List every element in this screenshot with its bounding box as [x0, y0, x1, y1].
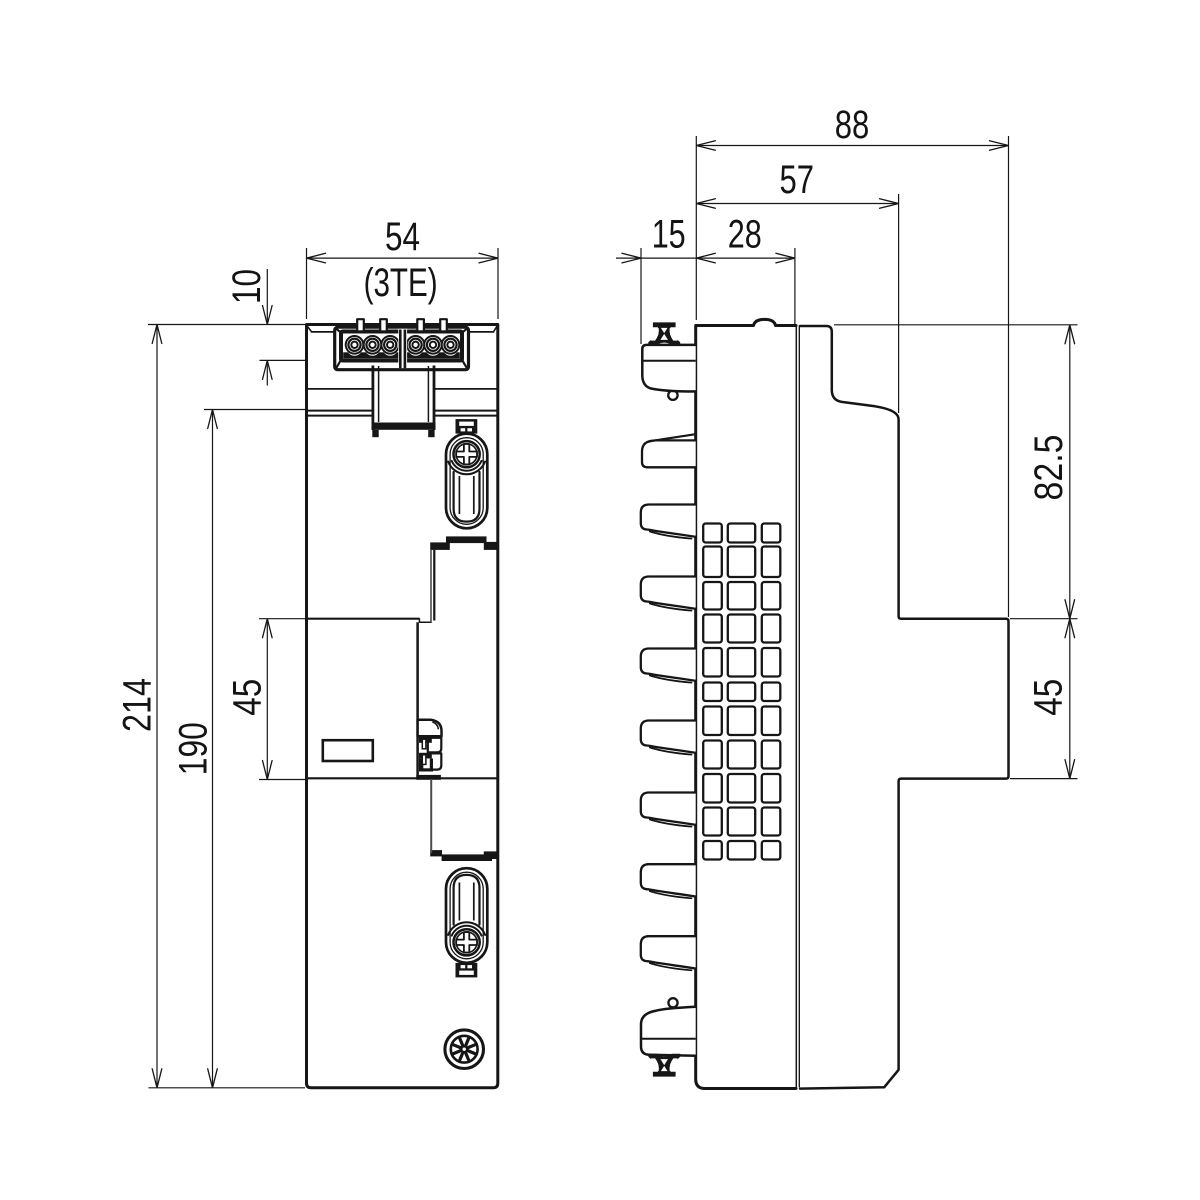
extension line x=794.9 (28 right)	[794, 248, 796, 325]
module cutout inner line	[433, 550, 435, 621]
module cutout left step	[430, 542, 450, 550]
bottom oval screw assembly (mirrored)	[446, 868, 487, 977]
svg-text:28: 28	[728, 213, 762, 257]
front top face right slant	[494, 326, 498, 332]
dimension line 54	[307, 257, 499, 259]
screw shank lines	[458, 476, 460, 514]
vent grid row 1	[703, 524, 722, 543]
module top edge jog	[419, 619, 431, 623]
module release latch edge line	[416, 622, 419, 778]
extension line x=696.3 (88/57/28 left)	[695, 136, 697, 320]
arrowhead 45R top	[1065, 619, 1075, 638]
side view divider line thick	[799, 326, 802, 1088]
wire clamp fin 4 (copy)	[641, 649, 696, 683]
T-plug stem right side	[433, 366, 436, 431]
dimension line 88	[696, 145, 1008, 147]
T-plug stem bottom bar	[372, 423, 436, 430]
T-plug stem left tick	[372, 430, 378, 437]
extension line y=409.5 (190 top)	[204, 409, 306, 411]
latch hook 2 slot	[422, 755, 426, 765]
terminal block center divider	[398, 329, 407, 368]
module cutout top bar	[446, 536, 487, 543]
terminal screw side spool	[648, 322, 680, 345]
extension line y=778.6 right	[1010, 778, 1078, 780]
module cutout left line	[430, 550, 432, 622]
arrowhead 54 right	[479, 253, 498, 263]
module cutout bottom-left bar	[430, 850, 442, 856]
body horizontal line y=388.9	[308, 388, 372, 390]
extension line y=324.5 (top of body)	[148, 324, 305, 326]
arrowhead 45R bottom	[1065, 760, 1075, 779]
arrowhead 15 left outside	[622, 253, 641, 263]
vent grid row 4	[703, 615, 722, 643]
bottom clip foot	[641, 1007, 696, 1056]
svg-text:45: 45	[1027, 679, 1071, 716]
terminal block corner bevels	[336, 329, 341, 333]
module cutout right step	[484, 542, 498, 550]
dimension line 82.5 / 45 right	[1069, 325, 1071, 779]
module cutout bottom right step	[484, 851, 498, 859]
latch hook 2 flap	[428, 753, 442, 769]
svg-text:15: 15	[652, 213, 686, 257]
arrowhead 57 right	[880, 199, 899, 209]
latch top box 3d edge	[433, 722, 438, 728]
dimension line 15-28	[616, 257, 795, 259]
terminal 5 circles	[425, 340, 440, 355]
extension line y=324.8 right (82.5 top)	[834, 324, 1078, 326]
terminal block top tab 3	[417, 319, 424, 330]
T-plug stem right tick	[428, 430, 434, 437]
svg-text:45: 45	[225, 679, 269, 716]
wire clamp fin 7 (copy)	[641, 864, 696, 898]
dimension line 57	[696, 203, 898, 205]
arrowhead 57 left	[696, 199, 715, 209]
terminal block top tab 2	[380, 319, 387, 330]
screw thread arcs	[452, 461, 482, 471]
torx screw center hub	[461, 1046, 467, 1052]
arrowhead 82.5 bottom	[1065, 600, 1075, 619]
module cutout bottom bar	[442, 854, 492, 861]
dimension line 214	[156, 325, 158, 1088]
wire clamp fin 6 (copy)	[641, 793, 696, 827]
svg-text:54: 54	[385, 215, 420, 259]
arrowhead 10 top outside	[263, 306, 273, 325]
arrowhead 28 right	[776, 253, 795, 263]
svg-text:190: 190	[171, 722, 215, 775]
side view right section outline	[800, 326, 1009, 1089]
arrowhead 88 right	[990, 141, 1009, 151]
screw slot inner outline	[450, 438, 483, 525]
arrowhead 214 top	[152, 325, 162, 344]
screw head phillips cross	[456, 444, 477, 464]
svg-text:214: 214	[115, 678, 159, 732]
wire clamp fin 5 (copy)	[641, 721, 696, 755]
wire clamp fin body	[641, 505, 696, 537]
arrowhead 190 bottom	[208, 1069, 218, 1088]
arrowhead 82.5 top	[1065, 325, 1075, 344]
latch hook 2 lower U	[419, 759, 433, 772]
svg-text:82.5: 82.5	[1027, 435, 1071, 501]
module bottom thick segment	[416, 775, 441, 780]
body horizontal line y=415.6	[308, 415, 372, 417]
vent grid row 6	[703, 683, 722, 702]
side view main body outline	[696, 319, 796, 1088]
front top face left slant	[307, 326, 311, 332]
latch hook 1 slot	[422, 739, 426, 749]
dimension line 10 lower segment	[266, 362, 268, 386]
vent grid row 10	[703, 808, 722, 836]
latch hook 1 bar	[419, 737, 432, 743]
extension line x=898.6 (57 right)	[898, 194, 900, 413]
bottom clip screw (side spool, mirrored)	[648, 1054, 680, 1077]
top terminal teardrop	[668, 391, 677, 400]
terminal 2 circles	[365, 340, 380, 355]
vent grid row 5	[703, 648, 722, 677]
module bottom edge	[308, 777, 497, 779]
module top edge	[308, 618, 420, 620]
arrowhead 45L bottom	[263, 761, 273, 780]
arrowhead 45L top	[263, 619, 273, 638]
extension line y=779.5 (45 bottom left)	[259, 779, 306, 781]
arrowhead 28 left	[696, 253, 715, 263]
terminal block front face	[341, 332, 462, 361]
top terminal foot	[642, 345, 695, 392]
vent grid row 3	[703, 582, 722, 610]
arrowhead 88 left	[696, 141, 715, 151]
extension line x=1008.5 (88 right)	[1008, 136, 1010, 617]
terminal 3 circles	[383, 340, 398, 355]
torx screw inner ring	[451, 1036, 478, 1063]
module cutout bottom line	[430, 779, 432, 853]
extension line y=360.4 (10 bottom)	[260, 359, 336, 361]
svg-text:(3TE): (3TE)	[364, 261, 438, 305]
screw slot outer stadium	[446, 434, 487, 529]
screw slot top bracket	[456, 419, 478, 434]
bottom clip foot divider	[641, 1038, 696, 1040]
T-plug stem inner right	[427, 366, 429, 422]
front view body outline	[307, 325, 498, 1088]
dimension line 190	[212, 410, 214, 1088]
extension line x=641 (15 left)	[640, 248, 642, 344]
svg-text:10: 10	[225, 269, 269, 304]
terminal block top tab 1	[357, 319, 364, 330]
torx screw spokes	[454, 1039, 475, 1060]
vent grid row 7	[703, 707, 722, 736]
latch hook 2 bar	[419, 753, 432, 759]
extension line y=618.7 right	[1010, 618, 1078, 620]
extension line y=618.7 (45 top left)	[259, 618, 306, 620]
svg-text:88: 88	[835, 103, 870, 147]
svg-text:57: 57	[780, 158, 815, 202]
top terminal foot divider	[642, 360, 695, 362]
T-plug stem left side	[371, 366, 374, 431]
front top face edge line	[311, 331, 336, 333]
extension line y=1087.8 (bottom of body)	[149, 1087, 306, 1089]
wire clamp fin 8 (copy)	[641, 936, 696, 970]
dimension line 45 left	[266, 619, 268, 780]
vent grid row 9	[703, 774, 722, 803]
vent grid row 2	[703, 547, 722, 578]
terminal block outer 3D box	[335, 327, 469, 370]
wire clamp fin 3 (copy)	[641, 577, 696, 611]
dimension line 10 upper segment	[266, 269, 268, 323]
vent grid row 8	[703, 741, 722, 769]
T-plug stem inner left	[378, 366, 380, 422]
latch hook 1 flap	[428, 738, 442, 753]
screw slot inner stadium	[454, 472, 480, 522]
arrowhead 214 bottom	[152, 1069, 162, 1088]
wire clamp fin 1 body	[642, 440, 696, 467]
latch hook 2 U inner	[423, 759, 430, 769]
arrowhead 54 left	[307, 253, 326, 263]
latch top box	[418, 720, 442, 736]
terminal block top tab 4	[440, 319, 447, 330]
bottom clip bump	[668, 998, 677, 1007]
terminal 1 circles	[347, 340, 362, 355]
wire clamp fin 1 lever arc	[648, 434, 696, 442]
arrowhead 190 top	[208, 410, 218, 429]
side view divider line thin	[795, 326, 797, 1088]
terminal block scallop band	[343, 352, 460, 358]
torx screw outer ring	[445, 1030, 484, 1069]
arrowhead 10 bottom outside	[263, 360, 273, 379]
extension line x=498 (54 right)	[497, 248, 499, 319]
wire clamp fin lever arc	[650, 532, 692, 539]
terminal 6 circles	[443, 340, 458, 355]
vent grid row 11	[703, 841, 722, 860]
terminal 4 circles	[408, 340, 423, 355]
body horizontal line y=410.6	[308, 410, 372, 412]
module label window	[323, 740, 373, 761]
extension line x=306.5 (54 left)	[306, 248, 308, 319]
screw head circle	[454, 441, 480, 467]
